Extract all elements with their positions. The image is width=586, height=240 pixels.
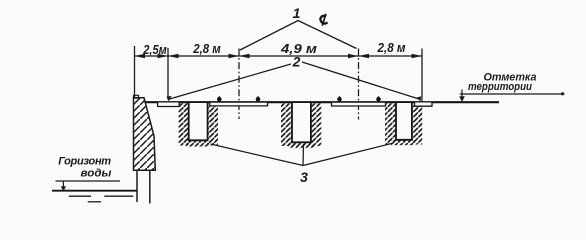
pit 1 soil hatch bottom (186, 141, 210, 147)
bearing pad D (415, 103, 433, 107)
centerline symbol (320, 14, 327, 26)
elevation arrow (461, 90, 463, 99)
bearing pad B (210, 103, 268, 106)
leader of label 3 from pit 2 (302, 144, 305, 166)
anchor bolt C1 (337, 96, 342, 101)
svg-text:3: 3 (300, 169, 308, 185)
dimension arrow at x=422 pointing right (412, 54, 423, 58)
elevation reference line (460, 93, 565, 95)
extension line x=168 (167, 48, 169, 100)
svg-text:2: 2 (292, 54, 301, 70)
pit 3 soil hatch right (412, 104, 422, 145)
extension line right (x=422) (421, 49, 423, 102)
dimension line (135, 55, 423, 57)
dimension arrow at x=134.5 pointing left (135, 54, 146, 58)
leader of label 2 left (170, 64, 292, 99)
axis centerline x=358.5 (dash-dot) (358, 49, 360, 120)
pit 1 soil hatch right (208, 104, 218, 146)
leader of label 3 from pit 1 (211, 144, 304, 166)
svg-text:2,8 м: 2,8 м (192, 42, 220, 56)
pit 1 soil hatch left (179, 104, 189, 146)
pit 3 soil hatch left (385, 104, 396, 145)
svg-text:территории: территории (468, 81, 532, 93)
pile left under wall (136, 171, 138, 203)
extension line left (x=134.5) (134, 46, 136, 98)
pit 3 soil hatch bottom (391, 140, 415, 146)
water hatch dash 1 (69, 195, 91, 197)
dimension arrows at x=358.5 (348, 54, 359, 58)
leader of label 2 right (302, 62, 419, 99)
leader of label 1 (V to both column axes) (240, 21, 357, 51)
water hatch dash 3 (88, 201, 101, 203)
pit 2 post (292, 103, 311, 142)
pit 3 post (396, 103, 412, 140)
bearing pad A (158, 103, 180, 107)
svg-text:2,5м: 2,5м (142, 43, 166, 57)
water surface line (52, 190, 138, 192)
anchor bolt C2 (376, 96, 381, 101)
pile right under wall (149, 171, 151, 204)
pit 2 soil hatch right (311, 104, 322, 147)
axis centerline x=239 (dash-dot) (238, 49, 240, 120)
svg-text:1: 1 (293, 5, 301, 21)
abutment wall hatch (134, 98, 156, 171)
wall top-left notch (134, 95, 139, 98)
water level reference line (56, 180, 121, 182)
svg-text:2,8 м: 2,8 м (377, 41, 406, 55)
dimension arrows at x=168 (158, 54, 169, 58)
dimension arrows at x=239 (229, 54, 240, 58)
water level arrow (62, 181, 64, 188)
pit 2 soil hatch left (281, 104, 292, 147)
ground line (145, 101, 499, 103)
bearing pad C (332, 103, 386, 106)
leader of label 3 from pit 3 (303, 143, 394, 166)
pit 2 soil hatch bottom (288, 143, 314, 149)
anchor bolt B2 (256, 96, 261, 101)
svg-text:Горизонт: Горизонт (58, 156, 111, 168)
water hatch dash 2 (104, 195, 133, 197)
anchor bolt B1 (217, 96, 222, 101)
pit 1 post (189, 103, 208, 140)
svg-text:воды: воды (81, 168, 112, 180)
